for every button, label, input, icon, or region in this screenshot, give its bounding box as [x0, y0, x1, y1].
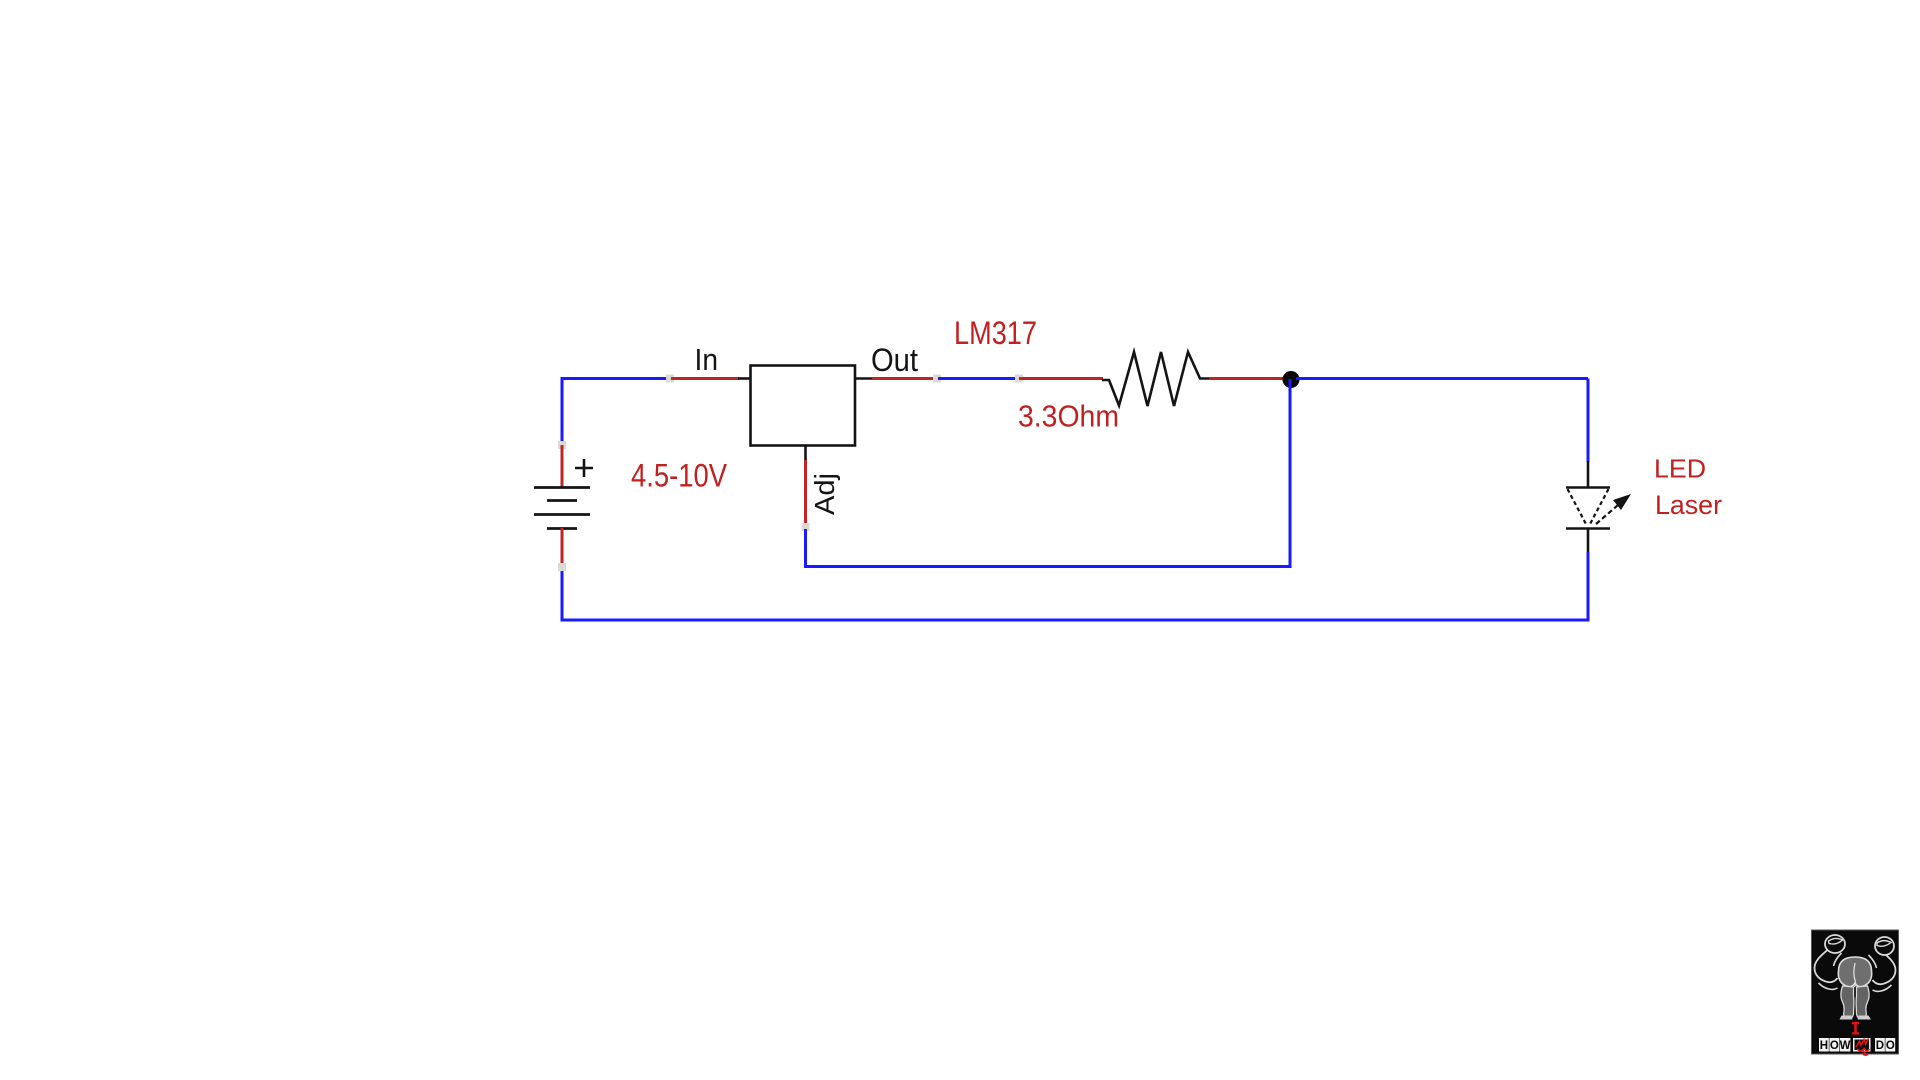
logo left claw: [1825, 935, 1845, 953]
battery plate long top: [534, 486, 590, 489]
logo left foot: [1840, 1016, 1853, 1020]
logo buttocks: [1838, 957, 1871, 987]
wire blue Out segment: [938, 377, 1019, 380]
LED D1 laser diode: [1566, 461, 1631, 553]
node Out connector: [933, 375, 941, 383]
wire red Adj lead: [804, 460, 807, 527]
node battery negative connector: [558, 563, 566, 571]
wire red In lead: [671, 377, 739, 380]
wire black Adj pin stub: [804, 445, 807, 462]
wire blue top rail junction to LED branch: [1296, 377, 1588, 380]
wire blue LED branch down: [1587, 379, 1590, 463]
logo black box: [1812, 930, 1899, 1054]
LED triangle left side: [1568, 489, 1588, 526]
logo butt crease: [1854, 963, 1856, 987]
wire black LED cathode stub: [1587, 528, 1590, 553]
svg-text:Laser: Laser: [1655, 490, 1722, 520]
LED emission arrow shaft: [1596, 505, 1618, 524]
node resistor-left connector: [1015, 375, 1023, 383]
logo tile O2: [1885, 1038, 1895, 1052]
wire blue top rail from battery to In terminal: [562, 379, 672, 446]
svg-text:W: W: [1840, 1040, 1851, 1052]
logo right foot: [1858, 1016, 1872, 1020]
LED bottom bar: [1566, 527, 1610, 530]
logo How-I-Do badge: [1812, 930, 1899, 1055]
resistor R1 3.3Ohm zigzag: [1102, 352, 1209, 406]
svg-text:LM317: LM317: [954, 315, 1037, 351]
wire red battery positive lead: [561, 445, 564, 488]
wire black In pin stub: [738, 377, 752, 380]
wire blue Adj feedback run: [806, 379, 1291, 567]
logo tile W: [1840, 1038, 1851, 1052]
wire red battery negative lead: [561, 528, 564, 567]
wire blue LED to bottom rail: [1587, 552, 1590, 622]
svg-text:Out: Out: [871, 342, 918, 378]
battery B1: [534, 441, 593, 571]
LED top bar: [1566, 486, 1610, 489]
logo tile D: [1875, 1038, 1885, 1052]
svg-text:LED: LED: [1654, 454, 1706, 484]
node battery positive connector: [558, 441, 566, 449]
svg-text:4.5-10V: 4.5-10V: [631, 458, 728, 494]
logo right claw: [1875, 937, 1894, 955]
svg-text:H: H: [1820, 1040, 1828, 1052]
svg-text:O: O: [1830, 1040, 1839, 1052]
node Adj connector: [802, 523, 810, 531]
wire red Out lead: [872, 377, 937, 380]
svg-text:D: D: [1876, 1040, 1884, 1052]
battery plate short bottom: [547, 527, 577, 530]
wire red resistor left lead: [1019, 377, 1103, 380]
LED triangle right side: [1589, 489, 1609, 526]
logo right arm: [1873, 952, 1896, 984]
wire red resistor right lead: [1209, 377, 1286, 380]
battery plus sign: [575, 459, 593, 477]
node junction dot: [1283, 371, 1300, 388]
logo left arm: [1815, 950, 1838, 982]
wire black LED anode stub: [1587, 461, 1590, 488]
wire black Out pin stub: [855, 377, 873, 380]
LED emission arrow head: [1613, 494, 1631, 510]
op-amp U1 LM317 regulator body: [751, 366, 856, 446]
logo left leg: [1841, 986, 1854, 1017]
svg-text:O: O: [1886, 1040, 1895, 1052]
logo right leg: [1856, 986, 1869, 1017]
battery plate short: [547, 499, 577, 502]
svg-text:In: In: [695, 342, 719, 377]
logo tile H: [1819, 1038, 1829, 1052]
logo tile O: [1829, 1038, 1839, 1052]
svg-text:3.3Ohm: 3.3Ohm: [1018, 399, 1119, 434]
wire blue bottom rail: [561, 619, 1590, 622]
battery plate long: [534, 513, 590, 516]
logo tile scribble: [1853, 1038, 1871, 1052]
node In terminal connector: [666, 375, 674, 383]
logo red I: [1852, 1022, 1859, 1035]
wire blue battery negative riser: [561, 566, 564, 622]
svg-text:Adj: Adj: [809, 473, 840, 515]
